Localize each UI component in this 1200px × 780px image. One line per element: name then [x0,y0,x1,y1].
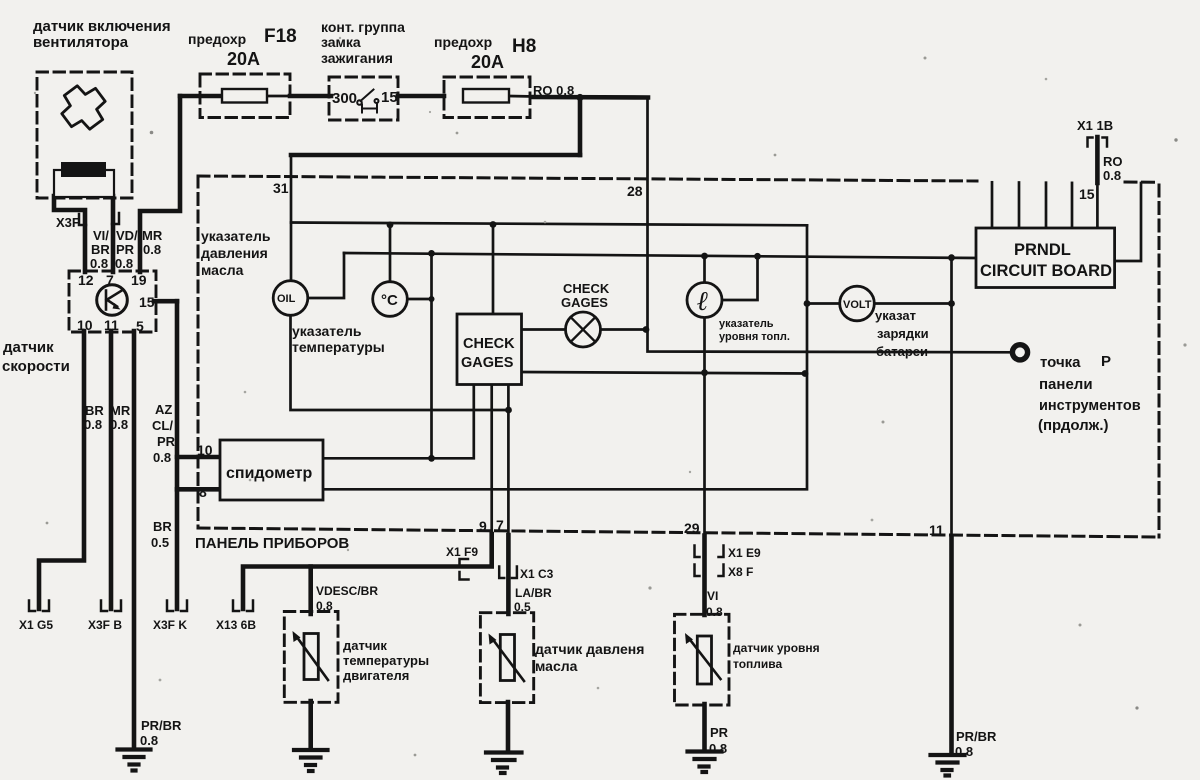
svg-text:5: 5 [136,318,144,334]
svg-text:0.8: 0.8 [1103,168,1121,183]
svg-text:VI: VI [707,589,718,603]
svg-text:(прдолж.): (прдолж.) [1038,417,1108,434]
svg-text:19: 19 [131,272,147,288]
svg-text:20А: 20А [471,52,504,72]
svg-text:двигателя: двигателя [343,668,409,683]
svg-text:инструментов: инструментов [1039,398,1141,414]
svg-text:°С: °С [381,292,398,309]
svg-text:топлива: топлива [733,657,783,671]
svg-text:11: 11 [104,317,119,333]
svg-text:температуры: температуры [343,653,429,668]
svg-text:VDESC/BR: VDESC/BR [316,584,378,598]
svg-text:15: 15 [139,294,155,310]
svg-text:уровня топл.: уровня топл. [719,331,790,343]
svg-text:9: 9 [479,518,487,534]
svg-text:10: 10 [77,317,93,333]
svg-text:GAGES: GAGES [561,295,608,310]
svg-text:BR: BR [153,519,172,534]
svg-text:12: 12 [78,272,94,288]
svg-text:0.8: 0.8 [140,733,158,748]
svg-text:CIRCUIT BOARD: CIRCUIT BOARD [980,262,1112,280]
svg-text:PRNDL: PRNDL [1014,241,1071,259]
svg-text:точка: точка [1040,354,1081,371]
svg-text:BR: BR [85,403,104,418]
svg-text:20A: 20A [227,49,260,69]
svg-text:конт. группа: конт. группа [321,19,405,35]
svg-text:31: 31 [273,180,289,196]
svg-text:8: 8 [199,484,207,500]
svg-text:замка: замка [321,34,361,50]
svg-text:X1 F9: X1 F9 [446,545,478,559]
svg-text:RO 0.8: RO 0.8 [533,83,574,98]
svg-text:датчик давленя: датчик давленя [535,641,644,657]
svg-text:0.8: 0.8 [153,450,171,465]
svg-text:Р: Р [1101,353,1111,370]
svg-text:0.8: 0.8 [90,256,108,271]
svg-text:датчик уровня: датчик уровня [733,641,820,655]
svg-text:GAGES: GAGES [461,355,514,371]
svg-text:вентилятора: вентилятора [33,34,129,51]
svg-text:0.8: 0.8 [706,605,723,619]
svg-text:PR/BR: PR/BR [956,729,997,744]
svg-text:датчик: датчик [3,339,54,356]
svg-text:300: 300 [332,90,357,107]
svg-text:MR: MR [142,228,163,243]
svg-text:0.8: 0.8 [955,744,973,759]
svg-text:CL/: CL/ [152,418,173,433]
svg-text:F18: F18 [264,26,297,47]
svg-text:X1 G5: X1 G5 [19,618,53,632]
svg-text:OIL: OIL [277,293,296,305]
svg-text:указатель: указатель [719,318,774,330]
svg-text:RO: RO [1103,154,1123,169]
svg-text:датчик: датчик [343,638,387,653]
svg-text:0.8: 0.8 [84,417,102,432]
svg-text:X13 6B: X13 6B [216,618,256,632]
svg-text:панели: панели [1039,376,1093,393]
svg-text:указатель: указатель [201,228,271,244]
svg-text:масла: масла [535,658,578,674]
svg-text:7: 7 [106,272,114,288]
svg-text:10: 10 [197,442,213,458]
svg-text:предохр: предохр [434,34,492,50]
svg-text:PR/BR: PR/BR [141,718,182,733]
svg-text:температуры: температуры [292,339,385,355]
svg-text:0.5: 0.5 [514,600,531,614]
svg-text:CHECK: CHECK [563,281,610,296]
svg-text:X1 1B: X1 1B [1077,118,1113,133]
svg-text:X8 F: X8 F [728,565,753,579]
svg-text:батареи: батареи [876,344,928,359]
svg-text:X3F B: X3F B [88,618,122,632]
svg-text:зарядки: зарядки [877,326,929,341]
svg-text:VI/: VI/ [93,228,109,243]
svg-text:0.8: 0.8 [115,256,133,271]
svg-text:0.8: 0.8 [316,599,333,613]
svg-text:скорости: скорости [2,358,70,375]
svg-text:X3F K: X3F K [153,618,187,632]
svg-text:VOLT: VOLT [843,299,872,311]
svg-text:масла: масла [201,262,244,278]
svg-text:предохр: предохр [188,31,246,47]
svg-text:давления: давления [201,245,268,261]
svg-text:указат: указат [875,308,916,323]
svg-text:0.8: 0.8 [709,741,727,756]
svg-text:29: 29 [684,520,700,536]
svg-text:28: 28 [627,183,643,199]
svg-text:BR: BR [91,242,110,257]
svg-text:спидометр: спидометр [226,465,312,482]
svg-text:X1 C3: X1 C3 [520,567,554,581]
svg-text:CHECK: CHECK [463,336,515,352]
svg-text:X1 E9: X1 E9 [728,546,761,560]
svg-text:LA/BR: LA/BR [515,586,552,600]
svg-text:AZ: AZ [155,402,172,417]
svg-text:датчик включения: датчик включения [33,18,171,35]
svg-text:15: 15 [381,89,398,106]
svg-text:PR: PR [157,434,176,449]
svg-text:MR: MR [110,403,131,418]
svg-text:Н8: Н8 [512,36,536,57]
svg-text:15: 15 [1079,186,1095,202]
svg-text:0.8: 0.8 [110,417,128,432]
svg-text:PR: PR [116,242,135,257]
svg-text:зажигания: зажигания [321,50,393,66]
svg-text:PR: PR [710,725,729,740]
svg-text:ПАНЕЛЬ ПРИБОРОВ: ПАНЕЛЬ ПРИБОРОВ [195,535,349,552]
svg-text:VD/: VD/ [116,228,138,243]
svg-text:0.5: 0.5 [151,535,169,550]
svg-text:11: 11 [929,522,944,538]
svg-text:X3F: X3F [56,215,80,230]
svg-text:ℓ: ℓ [697,286,709,316]
svg-text:указатель: указатель [292,323,362,339]
svg-text:0.8: 0.8 [143,242,161,257]
svg-text:7: 7 [496,517,504,533]
